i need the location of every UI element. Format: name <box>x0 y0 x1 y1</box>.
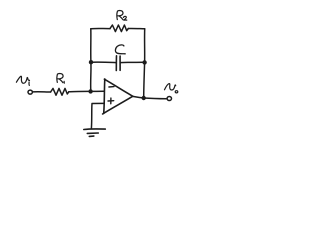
input terminal vi <box>28 90 32 94</box>
capacitor C right plate <box>119 56 121 70</box>
label vi <box>16 76 29 85</box>
node at capacitor right <box>142 60 146 64</box>
label C <box>115 45 125 54</box>
node at capacitor left <box>89 60 93 64</box>
node at inverting input <box>88 89 92 93</box>
wire feedback right vertical <box>144 29 145 98</box>
capacitor C left plate <box>115 56 117 71</box>
output terminal vo <box>167 97 171 101</box>
wire top left <box>91 27 110 29</box>
label vo <box>165 84 178 93</box>
wire feedback left vertical <box>90 29 92 92</box>
node at output <box>142 96 146 100</box>
wire R1 to inverting input <box>69 90 104 93</box>
wire input to R1 <box>33 91 51 93</box>
label R2 <box>117 11 127 21</box>
wire noninverting input to ground <box>91 103 104 128</box>
op-amp minus sign <box>109 86 114 88</box>
ground <box>84 129 106 136</box>
wire top right <box>128 27 144 29</box>
resistor R1 <box>51 88 69 95</box>
wire capacitor left <box>91 61 116 63</box>
resistor R2 <box>110 25 128 32</box>
op-amp U1 triangle <box>103 79 133 114</box>
op-amp plus sign <box>108 98 114 104</box>
wire op-amp output <box>133 96 167 98</box>
wire capacitor right <box>120 61 144 63</box>
label R1 <box>57 74 64 84</box>
